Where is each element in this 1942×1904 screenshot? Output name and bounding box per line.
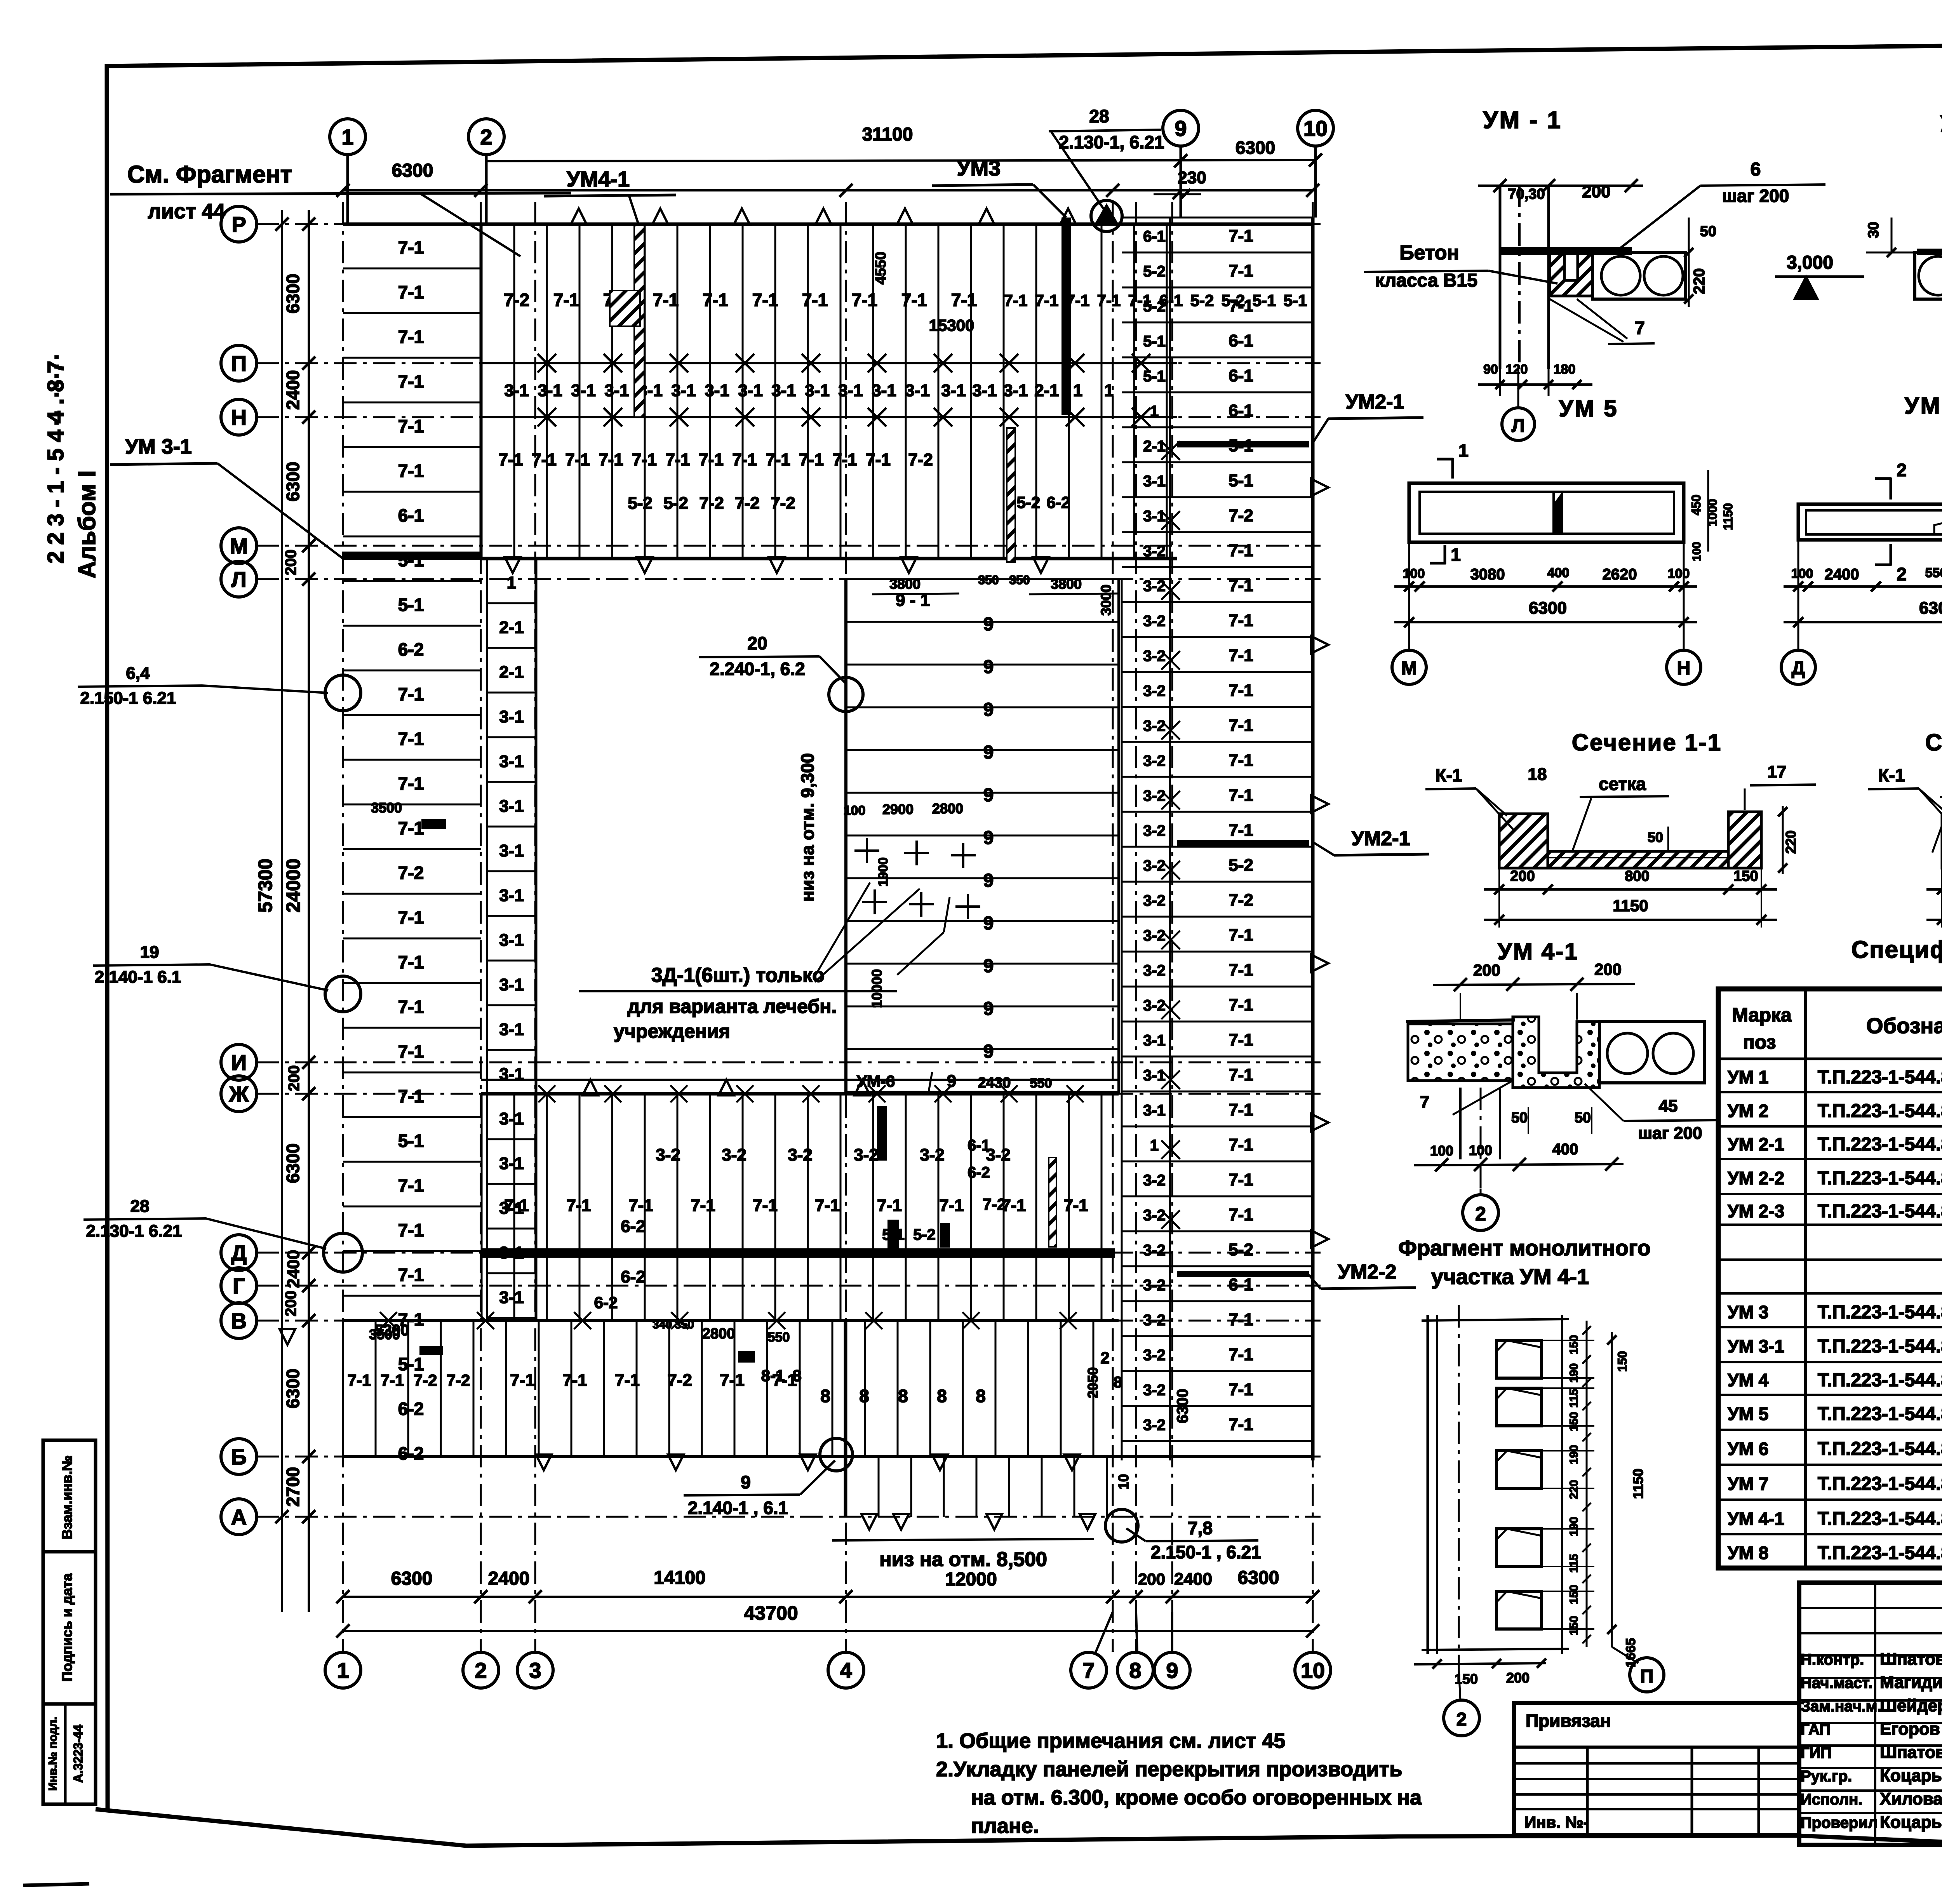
svg-text:100: 100 [1469, 1142, 1492, 1158]
svg-text:7-1: 7-1 [1229, 1205, 1253, 1224]
svg-text:2430: 2430 [978, 1075, 1011, 1091]
svg-text:7-1: 7-1 [1229, 961, 1253, 980]
svg-text:6-2: 6-2 [594, 1293, 618, 1312]
svg-text:7-1: 7-1 [1004, 291, 1028, 310]
svg-text:УМ 6: УМ 6 [1904, 393, 1942, 419]
svg-text:1150: 1150 [1613, 896, 1648, 915]
svg-text:Р: Р [231, 212, 246, 237]
svg-text:УМ 5: УМ 5 [1559, 395, 1618, 421]
svg-text:7-2: 7-2 [398, 863, 424, 883]
bottom wing heavy band at D axis [481, 1248, 1115, 1258]
detail UM4-1 bottom dims [1414, 1164, 1624, 1165]
svg-text:1: 1 [1073, 381, 1082, 400]
svg-text:2-1: 2-1 [1034, 381, 1059, 400]
svg-text:2620: 2620 [1603, 566, 1637, 583]
svg-text:См. Фрагмент: См. Фрагмент [127, 161, 292, 188]
svg-text:1900: 1900 [876, 857, 891, 887]
svg-text:УМ2-1: УМ2-1 [1346, 391, 1404, 413]
svg-text:2400: 2400 [1825, 566, 1859, 583]
top wing horizontal separators [481, 362, 1177, 364]
junction x-marks column 8-9 [1161, 441, 1180, 460]
beam UM6 dim line 2 [1784, 621, 1942, 623]
svg-text:Исполн.: Исполн. [1801, 1791, 1862, 1808]
svg-text:Сечение 2-2: Сечение 2-2 [1925, 729, 1942, 755]
svg-text:6-1: 6-1 [1229, 366, 1253, 385]
svg-text:2.150-1 , 6.21: 2.150-1 , 6.21 [1151, 1542, 1261, 1562]
svg-text:3-1: 3-1 [1143, 1067, 1166, 1084]
svg-text:Б: Б [231, 1445, 247, 1469]
svg-text:7-1: 7-1 [398, 907, 424, 928]
svg-text:6300: 6300 [283, 1143, 303, 1183]
svg-text:Подпись и дата: Подпись и дата [59, 1573, 75, 1682]
svg-text:1000: 1000 [1705, 499, 1719, 526]
svg-text:7-1: 7-1 [1229, 541, 1253, 560]
svg-text:115: 115 [1568, 1554, 1580, 1573]
svg-text:7-1: 7-1 [398, 997, 424, 1017]
svg-text:Т.П.223-1-544.87 Л.44,45: Т.П.223-1-544.87 Л.44,45 [1818, 1101, 1942, 1121]
svg-text:7-1: 7-1 [398, 461, 424, 481]
svg-text:17: 17 [1768, 762, 1787, 781]
svg-text:7-1: 7-1 [699, 450, 724, 469]
svg-text:Т.П.223-1-544.87 Л.44,45: Т.П.223-1-544.87 Л.44,45 [1818, 1168, 1942, 1189]
svg-text:9: 9 [983, 828, 994, 848]
beam UM5 outline [1409, 483, 1684, 542]
svg-text:Л: Л [1512, 416, 1525, 436]
svg-text:учреждения: учреждения [614, 1020, 730, 1042]
detail UM-1 bottom dims [1478, 383, 1592, 386]
svg-text:7-1: 7-1 [628, 1196, 653, 1215]
specification table grid [1718, 989, 1942, 1568]
beam UM5 right dim column [1707, 470, 1709, 552]
svg-text:К-1: К-1 [1436, 765, 1462, 785]
svg-text:220: 220 [1783, 830, 1799, 854]
plan top axis circles [330, 119, 365, 155]
svg-text:3-1: 3-1 [499, 707, 524, 726]
svg-text:7-1: 7-1 [802, 290, 828, 310]
svg-text:плане.: плане. [971, 1814, 1039, 1838]
svg-text:7-1: 7-1 [398, 327, 424, 347]
svg-text:2700: 2700 [283, 1467, 303, 1507]
privyazan table left of title block [1514, 1703, 1799, 1835]
svg-text:12000: 12000 [945, 1569, 997, 1590]
svg-text:А: А [231, 1505, 247, 1529]
svg-text:2-1: 2-1 [499, 618, 524, 637]
svg-text:2: 2 [1475, 1203, 1486, 1225]
plan bottom axis circles 1 2 3 4 7 8 9 10 [325, 1652, 361, 1688]
svg-text:3-1: 3-1 [771, 381, 796, 400]
svg-text:6300: 6300 [1529, 599, 1567, 618]
svg-text:7-1: 7-1 [398, 1041, 424, 1062]
svg-text:9: 9 [1175, 116, 1187, 141]
svg-text:7-1: 7-1 [1097, 291, 1121, 310]
svg-text:24000: 24000 [282, 858, 304, 912]
svg-text:Проверил: Проверил [1801, 1814, 1878, 1831]
top edge triangles [571, 209, 587, 225]
svg-text:8: 8 [1129, 1658, 1141, 1683]
svg-text:6300: 6300 [283, 274, 303, 313]
svg-text:Д: Д [231, 1241, 247, 1265]
svg-text:1: 1 [1150, 1137, 1159, 1154]
right band joints [1170, 217, 1313, 219]
svg-text:7-1: 7-1 [766, 450, 790, 469]
svg-text:УМ3: УМ3 [957, 156, 1001, 180]
svg-text:200: 200 [1473, 961, 1500, 979]
svg-text:Т.П.223-1-544.87 Л.44,45: Т.П.223-1-544.87 Л.44,45 [1818, 1336, 1942, 1357]
svg-text:100: 100 [1690, 542, 1703, 561]
svg-text:340: 340 [653, 1318, 672, 1331]
top dimension line [343, 189, 1313, 191]
svg-text:3Д-1(6шт.) только: 3Д-1(6шт.) только [651, 964, 825, 987]
svg-text:2: 2 [1897, 564, 1907, 584]
svg-text:Альбом I: Альбом I [74, 470, 101, 578]
right band edge arrows [1311, 479, 1328, 496]
svg-text:90: 90 [1483, 362, 1498, 377]
beam UM6 outline [1798, 504, 1942, 540]
svg-text:3-1: 3-1 [941, 381, 966, 400]
svg-text:7-1: 7-1 [398, 773, 424, 794]
svg-text:3-1: 3-1 [499, 752, 524, 771]
svg-text:7-1: 7-1 [566, 1196, 591, 1215]
svg-text:2400: 2400 [284, 1250, 303, 1288]
fragment dim column [1586, 1321, 1588, 1647]
svg-text:3-2: 3-2 [1143, 717, 1166, 734]
beam UM5 section flags 1 [1451, 458, 1454, 479]
svg-text:.. .....: .. ..... [38, 351, 63, 426]
svg-text:5-2: 5-2 [913, 1226, 936, 1243]
svg-text:Т.П.223-1-544.87 Л.44,45: Т.П.223-1-544.87 Л.44,45 [1818, 1404, 1942, 1424]
detail UM-1 wall lines [1499, 184, 1502, 369]
svg-text:Т.П.223-1-544.87 Л.44,45: Т.П.223-1-544.87 Л.44,45 [1818, 1370, 1942, 1391]
svg-text:3-1: 3-1 [499, 1020, 524, 1039]
svg-text:3-2: 3-2 [1143, 752, 1166, 769]
bottom strip panel joints [342, 1321, 344, 1457]
svg-text:7-1: 7-1 [398, 729, 424, 749]
top wing vertical panel joints [481, 224, 483, 559]
svg-text:8: 8 [792, 1366, 801, 1385]
svg-text:поз: поз [1743, 1031, 1776, 1053]
svg-text:Шейдерман: Шейдерман [1880, 1696, 1942, 1715]
svg-text:УМ 3: УМ 3 [1728, 1302, 1768, 1322]
svg-text:5-1: 5-1 [398, 1131, 424, 1151]
fragment total dims [1611, 1332, 1613, 1647]
svg-text:УМ 4: УМ 4 [1728, 1370, 1769, 1390]
svg-text:3-1: 3-1 [499, 1154, 524, 1173]
svg-text:5-1: 5-1 [398, 595, 424, 615]
svg-text:18: 18 [1528, 765, 1547, 784]
svg-text:УМ - 1: УМ - 1 [1483, 107, 1562, 134]
svg-text:Инв.№ подл.: Инв.№ подл. [47, 1717, 59, 1791]
svg-text:2400: 2400 [283, 370, 303, 410]
svg-text:Шпатова: Шпатова [1880, 1650, 1942, 1669]
svg-text:7-1: 7-1 [398, 818, 424, 838]
detail UM-2 left slab [1915, 252, 1942, 299]
svg-text:7-1: 7-1 [1229, 261, 1253, 280]
svg-text:7: 7 [1082, 1658, 1095, 1683]
svg-text:28: 28 [1089, 106, 1109, 126]
svg-text:6300: 6300 [392, 160, 433, 181]
hatched wall top wing left [634, 225, 644, 417]
svg-text:6-2: 6-2 [398, 639, 424, 660]
svg-text:3-1: 3-1 [504, 381, 529, 400]
svg-text:7-1: 7-1 [1229, 751, 1253, 770]
svg-text:2.150-1 6.21: 2.150-1 6.21 [80, 689, 176, 708]
svg-text:П: П [231, 351, 247, 376]
svg-text:М: М [230, 534, 248, 558]
svg-text:Зам.нач.м.: Зам.нач.м. [1801, 1698, 1881, 1715]
svg-text:7-1: 7-1 [398, 1086, 424, 1106]
svg-text:7-2: 7-2 [1229, 506, 1253, 525]
svg-text:6300: 6300 [391, 1568, 433, 1589]
svg-text:9: 9 [983, 956, 994, 976]
svg-text:7: 7 [1420, 1093, 1429, 1112]
detail UM4-1 axis circle 2 [1463, 1195, 1498, 1230]
svg-text:Ж: Ж [229, 1082, 249, 1106]
svg-text:УМ 5: УМ 5 [1728, 1404, 1768, 1424]
svg-text:Взам.инв.№: Взам.инв.№ [59, 1455, 75, 1539]
svg-text:550: 550 [1030, 1076, 1052, 1091]
area 9 panel joints [846, 578, 1119, 580]
left band panel joints [343, 268, 481, 270]
svg-text:3-1: 3-1 [499, 1109, 524, 1128]
svg-text:УМ 3-1: УМ 3-1 [125, 435, 192, 458]
svg-text:7-1: 7-1 [615, 1371, 640, 1390]
svg-text:3800: 3800 [889, 576, 921, 592]
beam UM5 dim line 2 [1394, 621, 1697, 623]
svg-text:9: 9 [741, 1472, 751, 1492]
svg-text:7-1: 7-1 [498, 450, 523, 469]
svg-text:100: 100 [1403, 566, 1425, 581]
svg-text:7-1: 7-1 [398, 282, 424, 302]
svg-text:3-1: 3-1 [1143, 1102, 1166, 1119]
svg-text:190: 190 [1568, 1517, 1580, 1536]
svg-text:лист 44: лист 44 [148, 200, 225, 223]
svg-text:9: 9 [983, 870, 994, 891]
svg-text:7-1: 7-1 [852, 290, 877, 310]
svg-text:участка УМ 4-1: участка УМ 4-1 [1431, 1264, 1589, 1289]
detail UM4-1 slab [1599, 1022, 1704, 1083]
svg-text:7-1: 7-1 [832, 450, 857, 469]
svg-text:45: 45 [1659, 1096, 1678, 1116]
fragment cores [1497, 1340, 1542, 1378]
svg-text:230: 230 [1178, 168, 1206, 187]
svg-text:2900: 2900 [882, 801, 914, 817]
svg-text:6-1: 6-1 [1229, 1275, 1253, 1294]
svg-text:3-2: 3-2 [1143, 1417, 1166, 1434]
svg-text:УМ 2-2: УМ 2-2 [1728, 1168, 1784, 1188]
svg-text:УМ 7: УМ 7 [1728, 1474, 1768, 1494]
detail UM-1 monolithic joint [1550, 249, 1592, 296]
plus marks in area 9 [854, 849, 879, 852]
svg-text:УМ 8: УМ 8 [1728, 1543, 1768, 1563]
svg-text:К-1: К-1 [1878, 765, 1905, 785]
svg-text:350: 350 [978, 573, 999, 587]
svg-text:9: 9 [983, 785, 994, 806]
svg-text:5-2: 5-2 [1190, 291, 1214, 310]
leader diagonals to plus marks [815, 889, 920, 982]
svg-text:200: 200 [1510, 868, 1535, 884]
svg-text:800: 800 [1625, 868, 1649, 884]
svg-text:200: 200 [282, 550, 299, 576]
svg-text:9: 9 [983, 1041, 994, 1062]
detail UM-1 slab with cores [1592, 252, 1686, 299]
svg-text:3-1: 3-1 [1003, 381, 1028, 400]
svg-text:7-1: 7-1 [1229, 1170, 1253, 1189]
plan left axis row circles [221, 206, 257, 242]
svg-text:115: 115 [1568, 1389, 1580, 1408]
svg-text:3-2: 3-2 [1143, 1277, 1166, 1294]
svg-text:7-1: 7-1 [866, 450, 891, 469]
svg-text:6300: 6300 [1919, 599, 1942, 618]
svg-text:7-1: 7-1 [877, 1196, 902, 1215]
svg-text:Д: Д [1792, 658, 1805, 679]
svg-text:7-1: 7-1 [1229, 296, 1253, 315]
bottom wing panel joints [481, 1094, 483, 1321]
svg-text:на отм. 6.300, кроме особо ого: на отм. 6.300, кроме особо оговоренных н… [971, 1786, 1422, 1809]
svg-text:Фрагмент монолитного: Фрагмент монолитного [1398, 1236, 1651, 1260]
svg-text:6-2: 6-2 [398, 1443, 424, 1464]
svg-text:6300: 6300 [283, 1369, 303, 1408]
svg-text:7-1: 7-1 [1063, 1196, 1088, 1215]
svg-text:Инв. №-: Инв. №- [1524, 1813, 1589, 1831]
svg-text:3-2: 3-2 [1143, 613, 1166, 630]
svg-text:3-2: 3-2 [1143, 787, 1166, 804]
svg-text:2400: 2400 [1174, 1570, 1212, 1589]
svg-text:2: 2 [480, 125, 492, 149]
svg-text:200: 200 [282, 1291, 299, 1317]
svg-text:2: 2 [1100, 1349, 1109, 1367]
detail UM4-1 left concrete part [1408, 1024, 1513, 1081]
svg-text:3-1: 3-1 [705, 381, 729, 400]
svg-text:9: 9 [983, 657, 994, 677]
svg-text:УМ2-1: УМ2-1 [1352, 827, 1410, 850]
svg-text:6300: 6300 [1238, 1568, 1279, 1588]
svg-text:7-1: 7-1 [599, 450, 623, 469]
black wall UM3 top wing [1061, 218, 1071, 415]
svg-text:1150: 1150 [1630, 1469, 1646, 1499]
junction x-marks on I axis [538, 1085, 555, 1102]
svg-text:2-1: 2-1 [1143, 438, 1166, 455]
svg-text:низ на отм. 9,300: низ на отм. 9,300 [797, 753, 818, 902]
svg-text:7-2: 7-2 [1229, 891, 1253, 910]
svg-text:2.240-1, 6.2: 2.240-1, 6.2 [710, 659, 805, 679]
svg-text:Нач.маст.: Нач.маст. [1801, 1674, 1872, 1692]
svg-text:7-1: 7-1 [553, 290, 579, 310]
svg-text:сетка: сетка [1599, 774, 1646, 794]
svg-text:3-1: 3-1 [872, 381, 896, 400]
svg-text:7-1: 7-1 [565, 450, 590, 469]
svg-text:7-1: 7-1 [1229, 1030, 1253, 1049]
svg-text:6300: 6300 [283, 462, 303, 501]
svg-text:3-2: 3-2 [1143, 682, 1166, 700]
svg-text:7-2: 7-2 [667, 1371, 692, 1390]
svg-text:6: 6 [1751, 159, 1761, 180]
svg-text:50: 50 [1648, 829, 1663, 845]
beam UM6 section flags 2 [1890, 478, 1892, 499]
right band black strips [1177, 441, 1309, 447]
svg-text:3-2: 3-2 [722, 1145, 747, 1164]
svg-text:7-1: 7-1 [1229, 576, 1253, 595]
svg-text:7-1: 7-1 [732, 450, 757, 469]
svg-text:10000: 10000 [869, 969, 885, 1008]
svg-text:7-1: 7-1 [398, 1175, 424, 1196]
svg-text:550: 550 [768, 1330, 790, 1345]
plan vertical axis lines [342, 202, 344, 1651]
svg-text:7-1: 7-1 [1229, 1065, 1253, 1084]
svg-text:Т.П.223-1-544.87 Л.44,45: Т.П.223-1-544.87 Л.44,45 [1818, 1134, 1942, 1155]
svg-text:7-1: 7-1 [632, 450, 657, 469]
svg-text:150: 150 [1568, 1616, 1580, 1635]
svg-text:Сечение 1-1: Сечение 1-1 [1572, 729, 1722, 755]
hatched wall bottom wing [1049, 1157, 1056, 1247]
svg-text:3-1: 3-1 [499, 931, 524, 950]
top wing outer edges [343, 223, 1313, 226]
svg-text:6-2: 6-2 [398, 1399, 424, 1419]
svg-text:28: 28 [131, 1197, 150, 1216]
svg-text:7-2: 7-2 [504, 290, 529, 310]
svg-text:7-1: 7-1 [815, 1196, 840, 1215]
svg-text:7: 7 [1635, 318, 1645, 338]
hatched wall right part top wing [1007, 428, 1015, 562]
beam UM5 dim line 1 [1394, 585, 1697, 588]
svg-text:3-2: 3-2 [1143, 857, 1166, 874]
svg-text:200: 200 [1594, 960, 1622, 978]
svg-text:3-1: 3-1 [499, 1288, 524, 1307]
column 3-1 panel joints [487, 558, 536, 560]
svg-text:19: 19 [140, 943, 159, 962]
svg-text:3-2: 3-2 [1143, 822, 1166, 839]
svg-text:7-1: 7-1 [510, 1371, 535, 1390]
svg-text:3-2: 3-2 [1143, 1382, 1166, 1399]
svg-text:6-1: 6-1 [1143, 228, 1166, 245]
svg-text:7-1: 7-1 [703, 290, 728, 310]
svg-text:7-1: 7-1 [1229, 1310, 1253, 1329]
svg-text:3-2: 3-2 [1143, 1242, 1166, 1259]
svg-text:7-1: 7-1 [532, 450, 557, 469]
svg-text:9: 9 [1166, 1658, 1178, 1683]
svg-text:3-2: 3-2 [656, 1145, 680, 1164]
svg-text:Привязан: Привязан [1526, 1711, 1611, 1731]
svg-text:1: 1 [341, 125, 353, 149]
filled node at axis 7 top [1091, 200, 1122, 231]
svg-text:6-2: 6-2 [621, 1217, 646, 1236]
svg-text:200: 200 [1582, 182, 1610, 201]
svg-text:УМ 2-1: УМ 2-1 [1728, 1134, 1784, 1154]
svg-text:2: 2 [1897, 460, 1907, 480]
svg-text:3-2: 3-2 [1143, 927, 1166, 944]
svg-text:7-2: 7-2 [735, 494, 760, 513]
svg-text:3800: 3800 [1051, 576, 1082, 592]
svg-text:7-1: 7-1 [381, 1371, 404, 1389]
svg-text:70,30: 70,30 [1508, 186, 1545, 202]
column 8-9 joints [1122, 217, 1170, 219]
svg-text:7-1: 7-1 [1229, 926, 1253, 945]
svg-text:3-2: 3-2 [1143, 997, 1166, 1014]
svg-text:6-2: 6-2 [1047, 493, 1070, 512]
svg-text:10: 10 [1303, 116, 1328, 141]
beam UM6 dim line 1 [1784, 585, 1942, 588]
svg-text:20: 20 [747, 633, 767, 653]
stray mark bottom left [23, 1884, 89, 1885]
svg-text:7-1: 7-1 [1229, 786, 1253, 805]
svg-text:350: 350 [675, 1318, 694, 1331]
svg-text:57300: 57300 [254, 858, 276, 912]
svg-text:180: 180 [1554, 362, 1576, 377]
left dimension lines [281, 210, 283, 1612]
svg-text:5-1: 5-1 [1143, 368, 1166, 385]
svg-text:43700: 43700 [744, 1602, 798, 1624]
svg-text:5-2: 5-2 [1017, 493, 1041, 512]
svg-text:класса В15: класса В15 [1375, 270, 1477, 291]
